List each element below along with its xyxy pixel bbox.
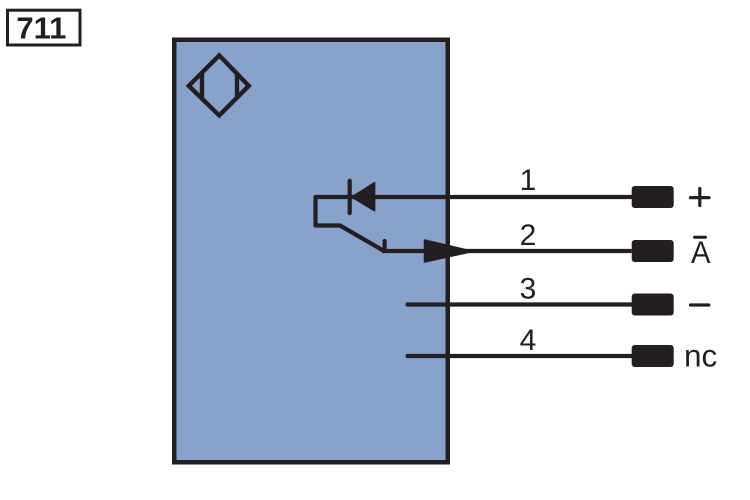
- svg-text:3: 3: [520, 273, 537, 306]
- svg-text:4: 4: [520, 324, 537, 357]
- svg-text:A: A: [691, 234, 711, 270]
- svg-text:2: 2: [520, 219, 537, 252]
- svg-text:1: 1: [520, 164, 537, 197]
- svg-text:711: 711: [16, 10, 66, 45]
- svg-text:nc: nc: [684, 337, 717, 373]
